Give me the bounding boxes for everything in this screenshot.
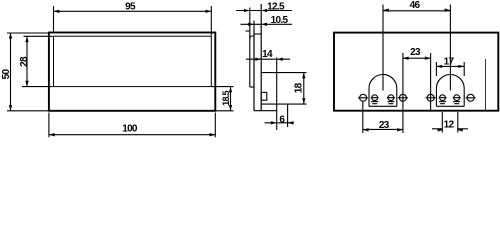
rear left dome bottom: [369, 105, 397, 107]
dim 10.5 ext left: [253, 21, 255, 30]
dim 50 arrow top: [9, 33, 12, 39]
dim 18.5 arrow bottom: [229, 105, 232, 111]
rear outer screw 2: [399, 94, 406, 101]
side view line H1 top of terminal: [261, 72, 306, 74]
dim 18 arrow top: [302, 73, 305, 79]
dim 23 top arrow right: [425, 57, 431, 60]
side view line V1: [276, 58, 278, 131]
rear right dome bottom: [436, 105, 464, 107]
side view bezel slab top: [254, 33, 261, 35]
dim 18 arrow bottom: [302, 98, 305, 104]
dim 28 ext top: [24, 35, 53, 37]
dim 6 ext right (V2): [287, 104, 289, 127]
dim 50 arrow bottom: [9, 105, 12, 111]
side view clamp bottom tick: [250, 86, 254, 88]
dim 95 arrow left: [54, 10, 60, 13]
dim 23 bottom arrow left: [363, 128, 369, 131]
dim 28 arrow bottom: [25, 81, 28, 87]
dim 6 line: [265, 122, 295, 124]
side view clamp top tick: [246, 30, 250, 32]
dim 46 arrow right: [445, 9, 451, 12]
dim 50 ext bottom: [7, 110, 48, 112]
rear inner screw 3: [440, 95, 446, 101]
side view terminal tip line: [261, 103, 306, 105]
dim 18.5 ext top: [211, 86, 233, 88]
dim 10.5 arrow left outside: [248, 23, 254, 26]
svg-text:18: 18: [294, 82, 305, 93]
side view bezel slab right: [260, 4, 262, 111]
svg-text:28: 28: [19, 56, 30, 67]
dim 100 ext right: [214, 113, 216, 138]
dim 17 arrow right: [458, 65, 464, 68]
dim 10.5 arrow right outside: [261, 23, 267, 26]
front view outer bezel rect: [49, 33, 215, 111]
dim 12 bottom line right segment: [458, 128, 468, 130]
dim 18 line: [303, 73, 305, 105]
side view clamp mid tick: [250, 36, 254, 39]
side view clamp front line: [249, 8, 251, 88]
svg-text:23: 23: [379, 120, 390, 131]
svg-text:95: 95: [125, 2, 136, 13]
dim 23 bottom ext left: [362, 102, 364, 133]
svg-text:46: 46: [410, 0, 421, 11]
rear right dome left leg: [435, 88, 437, 106]
rear view case rect: [334, 33, 498, 111]
rear outer screw 3: [427, 94, 434, 101]
dim 12 ext left: [441, 112, 443, 133]
dim 12 arrow left outside: [438, 128, 444, 131]
rear outer screw 4: [467, 94, 474, 101]
rear inner screw 2: [388, 95, 394, 101]
dim 17 ext left: [435, 62, 437, 76]
dim 100 arrow right: [210, 133, 216, 136]
dim 18.5 ext bottom: [215, 110, 233, 112]
dim 95 ext left: [53, 6, 55, 32]
svg-text:100: 100: [122, 123, 138, 134]
dim 23 top arrow left: [403, 57, 409, 60]
dim 28 line: [26, 36, 28, 86]
svg-text:18.5: 18.5: [221, 90, 231, 105]
svg-text:12.5: 12.5: [267, 2, 285, 13]
dim 12 bottom line left segment: [432, 128, 442, 130]
svg-text:50: 50: [1, 69, 12, 80]
dim 50 line: [10, 33, 12, 111]
rear inner screw 1: [372, 95, 378, 101]
dim 17 arrow left: [436, 65, 442, 68]
dim 17 line: [436, 65, 464, 67]
dim 12 ext right: [457, 112, 459, 133]
side view bezel slab bottom: [254, 110, 277, 112]
dim 10.5 line: [241, 23, 293, 25]
dim 14 line: [246, 58, 290, 60]
rear left dome right leg: [396, 88, 398, 106]
dim 23 bottom arrow right: [397, 128, 403, 131]
dim 95 line: [54, 10, 212, 12]
dim 18.5 arrow top: [229, 87, 232, 93]
dim 23 top ext left (long): [402, 53, 404, 133]
rear right dome right leg: [463, 88, 465, 106]
dim 14 arrow left outside: [255, 58, 261, 61]
rear outer screw 1: [360, 94, 367, 101]
dim 23 top line: [403, 57, 431, 59]
dim 95 ext right: [210, 6, 212, 36]
side view terminal box: [261, 92, 267, 100]
svg-text:17: 17: [444, 56, 455, 67]
svg-text:10.5: 10.5: [271, 15, 289, 26]
dim 100 arrow left: [49, 133, 55, 136]
rear view inner line right: [485, 59, 487, 111]
svg-text:14: 14: [262, 49, 273, 60]
dim 6 arrow right outside: [288, 121, 294, 124]
dim 18.5 line: [230, 87, 232, 111]
svg-text:12: 12: [444, 119, 455, 130]
dim 100 ext left: [48, 113, 50, 138]
dim 28 ext bottom: [22, 86, 53, 88]
dim 23 top ext right: [430, 53, 432, 111]
dim 6 arrow left outside: [271, 121, 277, 124]
dim 95 arrow right: [206, 10, 212, 13]
dim 12 arrow right outside: [457, 128, 463, 131]
dim 100 line: [49, 134, 215, 136]
dim 46 ext left: [382, 5, 384, 91]
rear right terminal dome arc: [436, 74, 464, 88]
rear inner screw 4: [454, 95, 460, 101]
side view bezel slab left: [253, 30, 255, 111]
rear left terminal dome arc: [369, 74, 397, 88]
svg-text:23: 23: [410, 47, 421, 58]
dim 46 arrow left: [383, 9, 389, 12]
dim 28 arrow top: [25, 36, 28, 42]
dim 12.5 line: [236, 10, 292, 12]
dim 12.5 arrow right outside: [261, 9, 267, 12]
dim 17 ext right: [463, 62, 465, 76]
rear left dome left leg: [368, 88, 370, 106]
front view window rect: [54, 36, 212, 86]
dim 46 line: [383, 10, 450, 12]
dim 46 ext right: [449, 5, 451, 91]
dim 12.5 arrow left outside: [244, 9, 250, 12]
dim 50 ext top: [7, 32, 48, 34]
dim 23 bottom line: [363, 128, 403, 130]
dim 14 arrow right outside: [277, 58, 283, 61]
